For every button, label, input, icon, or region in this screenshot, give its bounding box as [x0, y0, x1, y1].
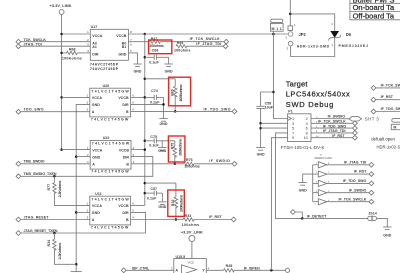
resistor R34: [47, 233, 76, 264]
node U20 VCCB rail: [144, 96, 147, 99]
ground under U17: [133, 64, 142, 73]
port JTAG_TDI: [16, 42, 42, 48]
svg-text:IF_TCK_SWCLK: IF_TCK_SWCLK: [339, 197, 367, 201]
svg-text:GND: GND: [299, 189, 307, 193]
svg-text:C74: C74: [151, 89, 158, 93]
wire U11 B out: [131, 219, 184, 221]
svg-text:1: 1: [316, 163, 317, 165]
svg-text:JTAG_TDI: JTAG_TDI: [24, 42, 42, 46]
node ISPEN riser: [270, 269, 273, 272]
node R75 bottom: [174, 163, 177, 166]
port IF_TDO_SWO: [204, 107, 237, 113]
svg-text:3: 3: [316, 182, 317, 184]
svg-text:100ohms: 100ohms: [174, 49, 191, 53]
pin numbers U17: [87, 30, 132, 53]
pin numbers resnet: [315, 163, 330, 206]
port IF_TCK_SWCLK out: [339, 197, 374, 204]
gate U15.5: [174, 255, 207, 273]
svg-text:Off-board Ta: Off-board Ta: [353, 11, 395, 20]
node R69 bottom: [174, 110, 177, 113]
ferrite bead right edge clipped: [391, 119, 400, 130]
node R32 bottom: [175, 218, 178, 221]
svg-text:R54: R54: [177, 41, 184, 45]
svg-text:IF_SWDIO: IF_SWDIO: [209, 159, 230, 163]
wire VDD to D6 cathode: [290, 14, 334, 31]
wire pin4 IF_TCK_SWCLK: [311, 122, 353, 124]
svg-text:IF_SWDIO: IF_SWDIO: [328, 115, 346, 119]
wire U20 DIR to gnd drop: [131, 103, 164, 105]
node DIR gnd: [162, 103, 165, 106]
svg-text:DIR: DIR: [92, 53, 99, 57]
pin numbers P1 left: [292, 117, 308, 140]
buffer element 4: [313, 190, 369, 196]
port TMS_SWDIO_TXEN: [16, 172, 57, 179]
wire C75 gnd stem: [161, 141, 163, 148]
wire P1 pin3 to gnd: [261, 122, 288, 124]
offpage connector SHT 3: [349, 116, 379, 121]
node IF_DETECT: [301, 217, 304, 220]
port diamond pin6: [353, 126, 358, 131]
svg-text:+3.3V_LINK: +3.3V_LINK: [181, 230, 203, 235]
wire TDO_SWO to U20 A: [21, 111, 90, 113]
svg-text:IF_TCK_SWCLK: IF_TCK_SWCLK: [190, 37, 220, 41]
svg-text:DIR: DIR: [123, 155, 130, 159]
wire +3.3V rail1: [61, 14, 63, 149]
buffer element 3: [313, 180, 369, 186]
svg-text:GND: GND: [118, 53, 126, 57]
node P1 pin5 gnd: [259, 127, 262, 130]
resistor network J5 RESNET4-SMD: [313, 155, 332, 202]
svg-text:VCCB: VCCB: [118, 96, 129, 100]
capacitor C57: [145, 187, 163, 200]
power +3.3V_LINK bottom: [181, 230, 203, 242]
svg-text:HDR-1x03-SMD: HDR-1x03-SMD: [297, 44, 330, 48]
svg-text:U15.5: U15.5: [176, 255, 186, 259]
wire IF_DETECT to JS14: [302, 217, 367, 219]
svg-text:IF_JTAG_TDI: IF_JTAG_TDI: [323, 129, 345, 133]
red annotation box R75: [168, 136, 185, 162]
svg-text:R68: R68: [69, 47, 76, 51]
svg-text:FTSH-105-01-L-DV-K: FTSH-105-01-L-DV-K: [281, 145, 325, 150]
red annotation box R47/C68: [149, 40, 172, 54]
ferrite bead M11: [271, 19, 284, 34]
svg-text:TDO_SWO: TDO_SWO: [24, 108, 44, 112]
svg-text:R76: R76: [186, 158, 193, 162]
svg-text:2.2Kohms: 2.2Kohms: [57, 242, 62, 260]
pin numbers U20: [87, 94, 135, 112]
svg-text:A: A: [92, 218, 95, 222]
resistor R69 pullup: [145, 79, 183, 112]
wire GND rail2 from U20 pin2: [76, 104, 90, 271]
port JTAG_RESET_TXEN: [16, 229, 58, 236]
svg-text:TMS_SWDIO: TMS_SWDIO: [24, 160, 45, 164]
svg-text:U22: U22: [103, 136, 110, 140]
svg-text:IF_TCK_SWCLK: IF_TCK_SWCLK: [381, 83, 400, 87]
svg-text:VCCB: VCCB: [116, 34, 127, 38]
port diamond pin8: [353, 131, 358, 136]
port IF_JTAG_TDI out: [344, 160, 374, 167]
ground rail2 bottom: [71, 271, 82, 273]
wire to U17 VCCA: [62, 33, 91, 35]
svg-text:U11: U11: [95, 192, 101, 196]
svg-text:SHT 3: SHT 3: [365, 116, 379, 121]
svg-text:10uF: 10uF: [265, 105, 274, 109]
svg-text:GND: GND: [92, 103, 100, 107]
wire ISP_CTRL to U15 A: [126, 269, 174, 271]
wire U17 VCCB to rail: [128, 33, 144, 35]
svg-text:R45: R45: [226, 264, 233, 268]
svg-text:R33: R33: [185, 214, 192, 218]
wire TCK_SWCLK to U17 A0: [21, 41, 91, 43]
red annotation box R32: [168, 190, 185, 216]
svg-text:Target: Target: [286, 80, 309, 89]
resistor R54: [174, 41, 223, 52]
resistor R68: [62, 47, 91, 60]
header JP2: [288, 26, 330, 48]
svg-text:A: A: [92, 162, 95, 166]
wire VCCB long line to JP2: [145, 33, 288, 35]
svg-text:GND: GND: [165, 69, 173, 73]
svg-text:PMEG1020EJ: PMEG1020EJ: [339, 44, 369, 48]
svg-text:VCC: VCC: [188, 261, 195, 265]
svg-text:R75: R75: [170, 143, 174, 150]
node U22 VCCB rail: [144, 148, 147, 151]
node rail1-R68: [60, 52, 63, 55]
ground under C68: [164, 64, 173, 73]
svg-text:0.1uF: 0.1uF: [147, 196, 157, 200]
buffer element 2: [313, 171, 369, 177]
capacitor C74: [145, 89, 164, 105]
svg-text:SWD Debug: SWD Debug: [286, 100, 334, 109]
svg-text:6: 6: [306, 127, 308, 131]
wire C68 gnd drop: [168, 57, 170, 64]
svg-text:100Kohms: 100Kohms: [178, 194, 183, 212]
svg-text:IF_RST: IF_RST: [354, 170, 367, 174]
port TCK_SWCLK: [16, 38, 46, 44]
svg-text:GND: GND: [158, 205, 166, 209]
wire pin10 IF_RST: [311, 137, 353, 139]
svg-text:4: 4: [306, 122, 308, 126]
node VCCB rail top: [144, 33, 147, 36]
wire VCCB rail: [144, 34, 146, 205]
svg-text:IF_TDO_SWO: IF_TDO_SWO: [204, 107, 231, 111]
port IF_RST out: [354, 170, 374, 177]
svg-text:M11: M11: [272, 27, 282, 31]
svg-text:RESNET4-SMD: RESNET4-SMD: [315, 157, 332, 160]
wire buffer pwr down to P1 pin1: [273, 34, 287, 119]
resistor R75 pullup: [170, 138, 182, 164]
wire JTAG_RESET to U11 A: [21, 219, 90, 221]
port TMS_SWDIO: [16, 160, 45, 167]
port IF_DETECT: [291, 210, 328, 219]
svg-text:D6: D6: [346, 32, 352, 37]
svg-text:VCCA: VCCA: [92, 34, 103, 38]
svg-text:A: A: [92, 110, 95, 114]
svg-text:2: 2: [306, 117, 308, 121]
svg-text:5: 5: [315, 204, 316, 206]
svg-text:R77: R77: [47, 184, 51, 191]
svg-text:defualt open: defualt open: [371, 137, 395, 142]
power +3.3V_LINK top: [49, 3, 71, 14]
ground under C74: [159, 119, 168, 126]
buffer element 5: [313, 199, 369, 205]
buffer U22 74LVC1T45GW: [90, 136, 131, 174]
pin numbers P1 harness stubs: [316, 117, 319, 138]
svg-text:1: 1: [292, 117, 294, 121]
node R32 feed: [144, 182, 147, 185]
svg-text:B: B: [126, 162, 129, 166]
svg-text:ISP_CTRL: ISP_CTRL: [132, 266, 150, 270]
svg-text:+3.3V_LINK: +3.3V_LINK: [49, 3, 71, 8]
svg-text:IF_TDO_SWO: IF_TDO_SWO: [323, 124, 347, 128]
svg-text:0.1uF: 0.1uF: [149, 61, 159, 65]
svg-text:IF_RST: IF_RST: [381, 95, 394, 99]
pin numbers U11: [87, 202, 135, 220]
wire to U11 GND: [76, 211, 90, 213]
svg-text:C68: C68: [152, 49, 159, 53]
svg-text:DIR: DIR: [122, 103, 129, 107]
wire U22 B out: [131, 163, 183, 165]
svg-text:4: 4: [328, 200, 329, 202]
wire TMS_SWDIO_TXEN to U22 DIR riser: [21, 157, 153, 177]
pin numbers U22: [87, 146, 135, 164]
wire JTAG_TDI to U17 A1: [21, 45, 91, 47]
port IF_TCK_SWCLK right edge: [371, 83, 400, 90]
wire to U22 VCCA: [62, 149, 91, 151]
wire U22 VCCB to rail: [131, 149, 145, 151]
wire U20 VCCB to rail: [131, 96, 145, 98]
node rail2-U11 GND: [75, 211, 78, 214]
svg-text:10: 10: [304, 136, 308, 140]
svg-text:U20: U20: [103, 84, 110, 88]
port IF_RST: [209, 215, 236, 222]
port IF_JTAG_TDI: [196, 42, 228, 48]
port IF_SWDIO: [209, 159, 237, 166]
svg-text:6: 6: [328, 182, 329, 184]
node R77 top: [53, 175, 56, 178]
wire to U22 GND: [76, 156, 90, 158]
node rail2-R34: [75, 263, 78, 266]
svg-text:7: 7: [328, 172, 329, 174]
svg-text:LPC546xx/540xx: LPC546xx/540xx: [286, 90, 350, 99]
port IF_SWDIO out: [349, 188, 374, 195]
svg-text:VCCA: VCCA: [92, 204, 103, 208]
svg-text:JTAG_RESET: JTAG_RESET: [24, 215, 50, 219]
svg-text:IF_TCK_SWCLK: IF_TCK_SWCLK: [318, 120, 346, 124]
ground under C57: [158, 202, 167, 209]
svg-text:VCCB: VCCB: [119, 148, 130, 152]
svg-text:8: 8: [306, 131, 308, 135]
resistor R32 pullup: [145, 183, 184, 219]
svg-text:B: B: [126, 218, 129, 222]
svg-text:IF_JTAG_TDI: IF_JTAG_TDI: [344, 160, 366, 164]
svg-text:IF_ISPEN: IF_ISPEN: [244, 266, 260, 270]
red annotation box R69: [169, 77, 191, 106]
node rail2-U22 GND: [75, 155, 78, 158]
svg-text:GND: GND: [257, 152, 265, 156]
node P1 pin3 gnd: [259, 122, 262, 125]
node M11 junction: [272, 33, 275, 36]
ground under C58: [256, 148, 265, 157]
wire pin2 IF_SWDIO: [311, 118, 349, 120]
wire to U20 VCCA: [62, 96, 90, 98]
wire JS14 to gnd: [377, 218, 388, 227]
resistor R77: [47, 176, 90, 205]
svg-text:IF_JTAG_TDI: IF_JTAG_TDI: [196, 42, 221, 46]
table buffer power select: [350, 0, 400, 20]
port diamond pin10: [353, 135, 358, 140]
svg-text:100Kohms: 100Kohms: [178, 83, 183, 101]
pin numbers JP2: [285, 23, 296, 51]
svg-text:100ohms: 100ohms: [184, 165, 200, 169]
terminal open circle: [285, 268, 289, 272]
svg-text:GND: GND: [158, 149, 166, 153]
wire C57 gnd stem: [161, 193, 163, 202]
svg-text:A1: A1: [92, 45, 97, 49]
wire U20 B out: [131, 110, 233, 112]
svg-text:B: B: [126, 110, 129, 114]
svg-text:2.2Kohms: 2.2Kohms: [57, 180, 62, 198]
svg-text:100ohms: 100ohms: [182, 223, 200, 227]
wire D6 anode loop to JP2 pin3: [291, 38, 335, 57]
svg-text:IF_DETECT: IF_DETECT: [307, 214, 327, 218]
node C58 branch: [272, 91, 275, 94]
svg-text:B1: B1: [122, 45, 127, 49]
svg-text:100Kohms: 100Kohms: [177, 138, 182, 156]
port diamond pin4: [353, 121, 358, 126]
resistor R47: [128, 37, 223, 48]
svg-text:3: 3: [292, 122, 294, 126]
capacitor C75: [145, 135, 175, 148]
svg-text:GND: GND: [92, 211, 100, 215]
heading sheet title: [286, 80, 350, 110]
svg-text:GND: GND: [92, 155, 100, 159]
svg-text:5: 5: [292, 127, 294, 131]
buffer U17 74AVC2T45DP: [90, 25, 128, 71]
svg-text:M: M: [393, 126, 396, 130]
capacitor C58: [256, 102, 273, 148]
svg-text:IF_TDO_SWO: IF_TDO_SWO: [381, 107, 400, 111]
ground resnet: [299, 183, 308, 193]
svg-text:GND: GND: [383, 234, 391, 238]
node rail1-U20 VCCA: [60, 96, 63, 99]
svg-text:R34: R34: [47, 240, 51, 247]
port IF_RST right edge: [371, 95, 400, 102]
wire target VDD from top: [289, 0, 291, 26]
wire P1 pin5 to gnd: [261, 127, 288, 129]
buffer U11 74LVC1T45GW: [90, 192, 131, 229]
svg-text:TMS_SWDIO_TXEN: TMS_SWDIO_TXEN: [24, 172, 57, 176]
svg-text:74AVC2T45DP: 74AVC2T45DP: [90, 62, 119, 66]
svg-text:HDR-1x02-SMD: HDR-1x02-SMD: [377, 145, 400, 150]
port IF_TCK_SWCLK: [190, 37, 229, 44]
node R69 feed: [144, 78, 147, 81]
svg-text:5: 5: [328, 191, 329, 193]
port TDO_SWO: [16, 108, 44, 115]
wire branch to C58: [261, 92, 274, 106]
resistor R45: [206, 264, 285, 272]
solder jumper JS14: [368, 212, 377, 222]
diode D6 PMEG1020EJ: [329, 31, 368, 48]
node C75 stub: [144, 140, 147, 143]
capacitor C68: [145, 55, 169, 65]
svg-text:GND: GND: [134, 69, 142, 73]
wire TMS_SWDIO to U22 A: [21, 163, 90, 165]
resistor R76: [183, 158, 232, 168]
svg-text:100Kohms: 100Kohms: [62, 57, 82, 61]
port IF_TDO_SWO right edge: [371, 107, 400, 114]
svg-text:GND: GND: [160, 122, 168, 126]
svg-text:C57: C57: [150, 187, 157, 191]
wire U11 VCCB to rail: [131, 204, 145, 206]
buffer element 1: [313, 162, 369, 168]
svg-text:P1: P1: [288, 110, 292, 114]
svg-text:IF_SWDIO: IF_SWDIO: [349, 188, 367, 192]
svg-text:JTAG_RESET_TXEN: JTAG_RESET_TXEN: [24, 229, 58, 233]
svg-text:VCCA: VCCA: [92, 148, 103, 152]
wire pin6 IF_TDO_SWO: [311, 127, 353, 129]
node C57 stub: [144, 192, 147, 195]
svg-text:C75: C75: [150, 135, 157, 139]
svg-text:DIR: DIR: [122, 211, 129, 215]
svg-text:U17: U17: [91, 25, 98, 29]
connector P1 FTSH-105-01-L-DV-K: [281, 110, 325, 151]
port ISP_CTRL: [121, 266, 150, 272]
svg-text:VCCA: VCCA: [92, 96, 103, 100]
node C68 stub: [144, 56, 147, 59]
svg-text:4: 4: [316, 191, 317, 193]
wire C74/DIR gnd drop: [163, 97, 165, 118]
node R34 top: [53, 232, 56, 235]
wire P1 pin7 to IF_DETECT: [276, 133, 303, 219]
port JTAG_RESET: [16, 215, 49, 222]
resistor R33: [182, 214, 232, 227]
svg-text:0.1uF: 0.1uF: [149, 144, 159, 148]
svg-text:R32: R32: [171, 200, 175, 207]
wire pin8 IF_JTAG_TDI: [311, 132, 353, 134]
svg-text:IF_RST: IF_RST: [332, 134, 345, 138]
svg-text:74AVC2T45DP: 74AVC2T45DP: [90, 67, 119, 71]
node rail1-U22 VCCA: [60, 148, 63, 151]
svg-text:IF_TDO_SWO: IF_TDO_SWO: [343, 179, 367, 183]
node rail1-U17 VCCA: [60, 33, 63, 36]
svg-text:TCK_SWCLK: TCK_SWCLK: [24, 38, 47, 42]
port IF_TDO_SWO out: [343, 179, 374, 186]
pin numbers U15.5: [171, 267, 209, 271]
svg-text:JP2: JP2: [299, 32, 307, 37]
wire to U15 VCC: [191, 241, 193, 258]
svg-text:2: 2: [316, 172, 317, 174]
svg-text:8: 8: [328, 163, 329, 165]
buffer U20 74LVC1T45GW: [90, 84, 131, 122]
wire resnet gnd: [303, 174, 313, 183]
svg-text:9: 9: [292, 136, 294, 140]
svg-text:100ohms: 100ohms: [149, 44, 164, 48]
wire U17 GND drop: [128, 53, 137, 64]
wire P1 pin9 to IF_ISPEN riser: [271, 138, 287, 271]
ground JS14: [383, 227, 392, 238]
node VDD branch: [289, 13, 292, 16]
svg-text:7: 7: [292, 131, 294, 135]
pin numbers D6: [331, 22, 333, 47]
svg-text:JS14: JS14: [368, 212, 376, 216]
wire JTAG_RESET_TXEN to U11 DIR riser: [21, 212, 146, 233]
svg-text:VCCB: VCCB: [118, 204, 129, 208]
svg-text:R69: R69: [171, 89, 175, 96]
ground under C75: [158, 148, 167, 153]
svg-text:IF_RST: IF_RST: [209, 215, 222, 219]
svg-text:A: A: [175, 269, 178, 273]
